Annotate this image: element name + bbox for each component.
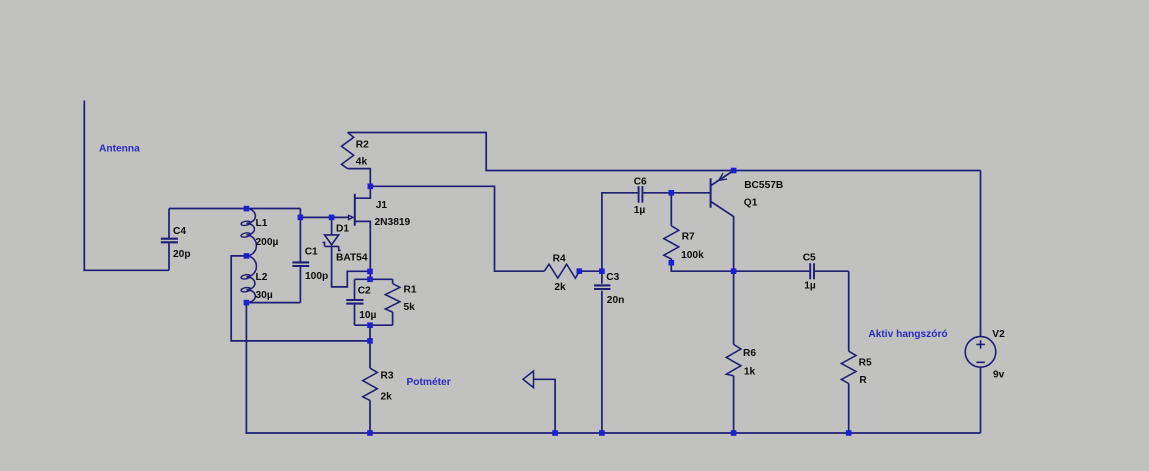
svg-text:20n: 20n	[607, 295, 625, 306]
junction nodes	[244, 168, 852, 436]
node collector	[731, 268, 737, 274]
wire C1 node to gate node	[300, 216, 348, 218]
wire top tank	[169, 208, 300, 210]
svg-text:5k: 5k	[404, 302, 416, 313]
node C3 top	[599, 268, 605, 274]
node L1 L2 tap	[244, 253, 250, 259]
node rail C3	[599, 430, 605, 436]
capacitor C2	[346, 279, 363, 325]
svg-text:100p: 100p	[305, 271, 328, 282]
node drain	[368, 184, 374, 190]
svg-text:R5: R5	[859, 357, 872, 368]
resistor R5	[841, 351, 856, 433]
capacitor C4	[161, 209, 178, 271]
diode D1	[323, 217, 371, 287]
wire collector node to C5	[734, 270, 810, 272]
resistor R1	[385, 279, 400, 325]
svg-text:BAT54: BAT54	[336, 253, 368, 264]
wire mid link to L2 tap	[231, 256, 370, 341]
node C2R1 bottom	[367, 322, 373, 328]
svg-text:1k: 1k	[744, 367, 756, 378]
node C1 top	[298, 215, 304, 221]
voltage source V2	[965, 337, 996, 368]
wire antenna bottom horizontal	[83, 269, 169, 271]
svg-text:R7: R7	[682, 232, 695, 243]
node R4 out	[577, 268, 583, 274]
svg-text:C3: C3	[606, 272, 619, 283]
svg-text:1µ: 1µ	[804, 280, 816, 291]
wire C3 node up to C6	[602, 193, 638, 271]
wire R2 top horizontal	[348, 132, 487, 134]
svg-text:Antenna: Antenna	[99, 143, 140, 154]
wire supply top	[486, 170, 980, 171]
svg-text:R1: R1	[404, 285, 417, 296]
svg-text:R3: R3	[381, 371, 394, 382]
node rail flag	[552, 430, 558, 436]
svg-text:C6: C6	[634, 176, 647, 187]
resistor R4	[544, 264, 579, 278]
node rail R6	[731, 430, 737, 436]
svg-text:BC557B: BC557B	[744, 180, 783, 191]
node base C6	[669, 190, 675, 196]
wire antenna vertical	[83, 101, 85, 271]
node L2 bottom	[244, 300, 250, 306]
node rail R3	[367, 430, 373, 436]
svg-text:L2: L2	[256, 272, 268, 283]
wire R2 bottom to drain node	[348, 169, 371, 187]
node C2R1 top	[367, 277, 373, 283]
wire C2R1 top bar	[355, 278, 393, 280]
svg-text:C2: C2	[358, 285, 371, 296]
capacitor C1	[292, 217, 309, 302]
jfet J1	[349, 186, 371, 279]
wire C1 bottom to L2 bottom	[246, 302, 300, 304]
svg-text:20p: 20p	[173, 249, 191, 260]
svg-text:C5: C5	[803, 252, 816, 263]
capacitor C6	[639, 186, 711, 203]
svg-text:Potméter: Potméter	[407, 377, 451, 388]
svg-text:D1: D1	[336, 223, 349, 234]
node source D1 return	[367, 269, 373, 275]
svg-text:C4: C4	[173, 226, 186, 237]
svg-text:30µ: 30µ	[256, 290, 273, 301]
capacitor C5	[810, 263, 849, 279]
svg-text:V2: V2	[992, 329, 1005, 340]
resistor R6	[726, 271, 741, 433]
node emitter supply	[731, 168, 737, 174]
wire drain run right	[370, 186, 544, 271]
wire C5 to R5 top	[848, 271, 850, 351]
wire V2 top lead	[980, 171, 982, 337]
svg-text:R2: R2	[356, 139, 369, 150]
resistor R7	[664, 193, 734, 271]
svg-text:R6: R6	[743, 348, 756, 359]
node L1 top	[244, 206, 250, 212]
svg-text:R: R	[859, 375, 867, 386]
svg-text:4k: 4k	[356, 156, 368, 167]
node gate D1	[329, 215, 335, 221]
svg-text:200µ: 200µ	[256, 237, 279, 248]
svg-text:1µ: 1µ	[634, 205, 646, 216]
capacitor C3	[594, 271, 610, 433]
svg-text:J1: J1	[376, 200, 388, 211]
svg-text:10µ: 10µ	[359, 310, 376, 321]
wire ground rail	[245, 432, 980, 434]
svg-text:9v: 9v	[993, 369, 1005, 380]
transistor Q1	[711, 171, 734, 272]
svg-text:Q1: Q1	[744, 198, 758, 209]
wire C2R1 bottom bar	[355, 324, 393, 326]
svg-text:L1: L1	[256, 218, 268, 229]
node rail R5	[846, 430, 852, 436]
io arrow flag	[523, 371, 555, 433]
resistor R3	[363, 341, 378, 433]
node R7 bottom	[669, 260, 675, 266]
resistor R2	[342, 133, 354, 169]
inductor L1	[241, 209, 257, 256]
svg-text:2k: 2k	[381, 392, 393, 403]
svg-text:2k: 2k	[554, 282, 566, 293]
wire down to C1 node	[299, 209, 301, 218]
wire R2 top riser	[485, 133, 487, 171]
svg-text:2N3819: 2N3819	[375, 217, 411, 228]
svg-text:C1: C1	[305, 246, 318, 257]
inductor L2	[241, 256, 257, 303]
svg-text:R4: R4	[553, 253, 566, 264]
wire V2 bottom lead	[980, 367, 982, 433]
wire left column down	[245, 303, 247, 433]
wire R4 to C3 node	[579, 270, 602, 272]
wire source node to mid node	[369, 325, 371, 341]
node mid tap	[367, 338, 373, 344]
svg-text:100k: 100k	[681, 250, 704, 261]
svg-text:Aktiv hangszóró: Aktiv hangszóró	[868, 329, 947, 340]
